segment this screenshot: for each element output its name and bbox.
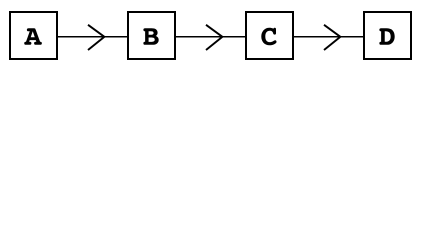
wire A to B	[57, 36, 128, 38]
wire C to D	[293, 36, 364, 38]
node D box	[364, 12, 411, 59]
wire B to C	[175, 36, 246, 38]
node C box	[246, 12, 293, 59]
arrowhead A to B	[88, 25, 104, 50]
node B label	[143, 28, 158, 45]
node D label	[379, 28, 394, 45]
arrowhead C to D	[324, 25, 340, 50]
node A box	[10, 12, 57, 59]
node B box	[128, 12, 175, 59]
node A label	[24, 28, 42, 45]
node C label	[261, 28, 276, 46]
arrowhead B to C	[206, 25, 222, 50]
